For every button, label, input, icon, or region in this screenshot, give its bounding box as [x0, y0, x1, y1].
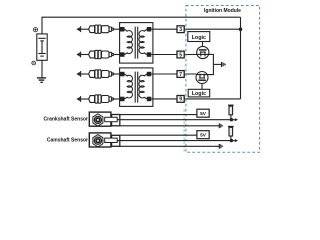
wire Q2 gate to logic U2 [201, 84, 203, 90]
5V regulator block row1 [197, 109, 209, 117]
wire CKP signal A to 5V reg [120, 114, 197, 116]
logic block U2 [188, 89, 210, 97]
wire CKP signal B to pull-up node [117, 119, 231, 121]
wire CMP signal C into module [120, 145, 219, 147]
wire common node output arrow [213, 63, 221, 65]
wire T2 primary bottom to pin 9 and bus [151, 98, 240, 100]
wire T1 primary top to pin 3 and bus [151, 28, 240, 30]
battery minus terminal mark [32, 61, 36, 65]
junction dot R2 node [230, 139, 233, 142]
wire CMP signal A to 5V reg [120, 134, 197, 136]
T2 terminal bottom-right [147, 97, 152, 102]
bus wire B+ inside module [240, 17, 242, 99]
wire T1 primary bottom to pin 5 and driver Q1 [151, 54, 197, 56]
T1 terminal bottom-left [120, 52, 125, 57]
wire logic U1 to Q1 gate [202, 42, 204, 47]
junction dot node B+ / pin3 [239, 27, 243, 31]
ignition coil transformer T1 [120, 23, 153, 64]
logic block U1 [188, 32, 210, 42]
svg-text:5V: 5V [200, 111, 207, 117]
junction dot R1 node [230, 118, 233, 121]
transistor Q1 [197, 46, 209, 58]
ignition coil transformer T2 [120, 68, 153, 107]
svg-text:Camshaft Sensor: Camshaft Sensor [47, 138, 88, 144]
connector pin 5 [177, 51, 184, 58]
arrow CKP signal C [218, 123, 220, 128]
T2 terminal bottom-left [120, 97, 125, 102]
svg-text:3: 3 [179, 27, 182, 33]
connector pin 9 [177, 96, 184, 103]
wire B+ rail from battery to module bus [42, 17, 241, 34]
svg-text:Logic: Logic [192, 35, 206, 41]
connector dashed line at module input [183, 110, 185, 152]
wire CKP signal C into module [120, 125, 219, 127]
pull-up resistor R2 [228, 127, 234, 141]
spark plug SP1 [77, 25, 120, 33]
arrow R1 node output [231, 119, 234, 121]
ground [37, 78, 46, 82]
svg-text:5V: 5V [200, 133, 207, 139]
svg-text:5: 5 [179, 52, 182, 58]
transistor Q2 [196, 72, 208, 84]
arrow R2 node output [231, 140, 234, 142]
svg-text:Crankshaft Sensor: Crankshaft Sensor [44, 117, 89, 123]
T1 terminal top-right [147, 27, 152, 32]
T1 terminal bottom-right [147, 52, 152, 57]
spark plug SP3 [77, 70, 120, 78]
wire Q1 output to common node [209, 54, 214, 64]
svg-text:9: 9 [179, 97, 182, 103]
svg-text:Ignition Module: Ignition Module [204, 8, 241, 14]
pull-up resistor R1 [228, 105, 234, 120]
camshaft sensor CMP [89, 133, 119, 147]
spark plug SP2 [77, 50, 120, 58]
wire CMP signal B to pull-up node [117, 140, 231, 142]
5V regulator block row2 [197, 131, 209, 139]
crankshaft sensor CKP [89, 112, 119, 126]
T1 terminal top-left [120, 27, 125, 32]
wire T2 primary top to pin 7 and driver Q2 [151, 73, 196, 75]
connector pin 3 [177, 26, 184, 33]
battery plus terminal mark [33, 28, 37, 32]
wire battery negative to ground [41, 60, 43, 77]
svg-text:7: 7 [179, 72, 182, 78]
ignition module dashed boundary [186, 6, 260, 153]
T2 terminal top-left [120, 72, 125, 77]
svg-text:Logic: Logic [192, 91, 206, 97]
T2 terminal top-right [147, 72, 152, 77]
wire Q2 output to common node [208, 64, 213, 74]
battery [37, 34, 47, 60]
arrow CMP signal C [218, 144, 220, 149]
spark plug SP4 [77, 95, 120, 103]
connector pin 7 [177, 71, 184, 78]
